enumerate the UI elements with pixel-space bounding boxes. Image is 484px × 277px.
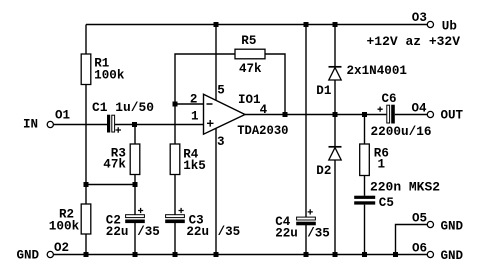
wire R2 bottom stub xyxy=(85,234,87,255)
svg-text:OUT: OUT xyxy=(441,109,464,123)
node C3/ground rail xyxy=(173,252,178,257)
svg-text:GND: GND xyxy=(17,249,40,263)
wire input left of C1 xyxy=(54,124,108,126)
resistor R1 xyxy=(81,54,125,85)
svg-text:C6: C6 xyxy=(382,92,397,106)
node O5/ground rail xyxy=(393,252,398,257)
wire R5 left leg down to pin 2 node xyxy=(175,54,235,104)
svg-text:4: 4 xyxy=(260,103,268,117)
wire R1 top stub xyxy=(85,25,87,55)
svg-text:/35: /35 xyxy=(137,225,160,239)
wire pin 5 to supply rail xyxy=(215,25,217,101)
svg-text:O1: O1 xyxy=(55,109,70,123)
capacitor C5 xyxy=(354,180,440,210)
svg-text:D1: D1 xyxy=(316,84,331,98)
svg-text:C1 1u/50: C1 1u/50 xyxy=(92,101,154,115)
svg-text:O6: O6 xyxy=(412,242,427,256)
svg-text:100k: 100k xyxy=(94,69,125,83)
svg-text:IN: IN xyxy=(23,118,38,132)
svg-text:TDA2030: TDA2030 xyxy=(237,124,288,138)
wire C4 branch xyxy=(305,25,307,255)
svg-text:5: 5 xyxy=(217,83,225,97)
svg-text:47k: 47k xyxy=(239,62,262,76)
svg-text:22u: 22u xyxy=(275,226,298,240)
node pin3/ground rail xyxy=(214,252,219,257)
capacitor C3 xyxy=(165,208,240,239)
node pin2/R4/R5 xyxy=(173,102,178,107)
resistor R2 xyxy=(49,204,91,234)
svg-text:IO1: IO1 xyxy=(238,93,261,107)
svg-text:GND: GND xyxy=(441,219,464,233)
terminal O6 GND xyxy=(412,242,464,264)
diode D1 xyxy=(316,64,407,98)
node C2/ground rail xyxy=(133,252,138,257)
terminal O4 OUT xyxy=(412,102,464,123)
terminal O3 Ub xyxy=(367,11,461,49)
node C1/R3/pin1 xyxy=(132,122,137,127)
node feedback/output xyxy=(283,112,288,117)
node R2/ground rail xyxy=(84,252,89,257)
resistor R3 xyxy=(103,144,140,175)
wire R6 C5 branch xyxy=(364,115,366,255)
wire O5 ground stub xyxy=(396,225,428,255)
svg-text:2200u/16: 2200u/16 xyxy=(371,125,432,139)
svg-text:100k: 100k xyxy=(49,219,80,233)
resistor R4 xyxy=(170,144,206,175)
node pin5/rail xyxy=(214,22,219,27)
capacitor C6 xyxy=(371,92,432,139)
wire R1 to R2 vertical xyxy=(85,84,87,205)
wire D1 D2 branch xyxy=(334,25,336,255)
wire bias divider to R3/C2 node xyxy=(86,184,135,186)
node C4/ground rail xyxy=(304,252,309,257)
wire input C1 to op-amp pin 1 xyxy=(115,124,204,126)
node C5/ground rail xyxy=(362,252,367,257)
svg-text:22u: 22u xyxy=(106,225,129,239)
svg-text:Ub: Ub xyxy=(442,19,457,33)
svg-text:47k: 47k xyxy=(103,158,126,172)
wire top supply rail xyxy=(86,24,427,26)
svg-text:220n MKS2: 220n MKS2 xyxy=(370,180,440,194)
svg-text:+12V az +32V: +12V az +32V xyxy=(367,35,461,49)
terminal O2 GND xyxy=(17,241,70,263)
node D2/ground rail xyxy=(333,252,338,257)
terminal O5 GND xyxy=(412,212,464,234)
svg-text:1: 1 xyxy=(191,110,199,124)
svg-text:1: 1 xyxy=(378,158,386,172)
wire R3 branch xyxy=(134,125,136,255)
svg-text:GND: GND xyxy=(441,249,464,263)
svg-text:O5: O5 xyxy=(412,212,427,226)
capacitor C4 xyxy=(275,209,330,240)
wire output pin 4 to C6 xyxy=(245,114,386,116)
node C4/rail xyxy=(304,22,309,27)
svg-text:/35: /35 xyxy=(218,225,241,239)
svg-text:C5: C5 xyxy=(379,196,394,210)
svg-text:22u: 22u xyxy=(186,225,209,239)
svg-text:1k5: 1k5 xyxy=(183,159,206,173)
svg-text:/35: /35 xyxy=(307,226,330,240)
resistor R5 xyxy=(235,34,265,76)
svg-text:2: 2 xyxy=(190,92,198,106)
svg-text:2x1N4001: 2x1N4001 xyxy=(347,64,408,78)
svg-text:O3: O3 xyxy=(412,11,427,25)
terminal O1 IN xyxy=(23,109,70,132)
op-amp U1 IO1 TDA2030 xyxy=(190,83,289,149)
wire bottom ground rail xyxy=(54,254,428,256)
capacitor C1 xyxy=(92,101,154,133)
svg-text:O4: O4 xyxy=(412,102,428,116)
node R6/output xyxy=(362,112,367,117)
svg-text:R5: R5 xyxy=(241,34,256,48)
node R3C2/bias xyxy=(133,182,138,187)
wire C6 to OUT terminal xyxy=(395,114,427,116)
resistor R6 xyxy=(360,144,389,176)
node divider/bias xyxy=(84,182,89,187)
svg-text:O2: O2 xyxy=(54,241,69,255)
wire R4 branch xyxy=(174,104,176,255)
node D1/rail xyxy=(333,22,338,27)
wire op-amp pin 2 xyxy=(175,103,204,105)
node D/output xyxy=(333,112,338,117)
svg-text:3: 3 xyxy=(217,135,225,149)
junction nodes xyxy=(84,22,399,257)
wire R5 right leg down to output xyxy=(265,54,285,115)
capacitor C2 xyxy=(106,208,160,239)
diode D2 xyxy=(316,147,341,178)
wire pin 3 to ground rail xyxy=(215,128,217,254)
svg-text:D2: D2 xyxy=(316,164,331,178)
